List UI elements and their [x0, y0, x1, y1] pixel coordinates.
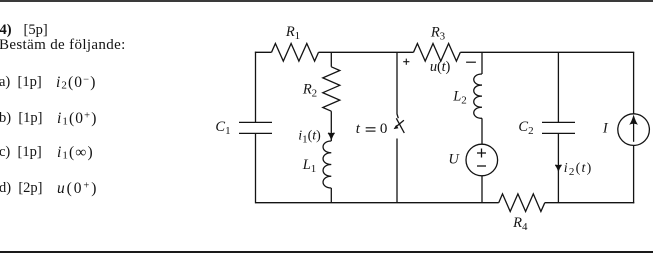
heading: Bestäm de följande:: [0, 38, 126, 53]
wire bottom-right: [545, 202, 634, 204]
wire left rail upper: [255, 52, 257, 123]
capacitor C1: [215, 119, 272, 137]
resistor R2: [302, 67, 340, 111]
wire R1 to R3: [319, 51, 414, 53]
resistor R1: [272, 24, 319, 61]
wire bottom-left: [256, 202, 499, 204]
svg-text:C1: C1: [215, 119, 230, 137]
svg-text:L1: L1: [302, 157, 317, 175]
item b: [0, 111, 43, 126]
inductor L1: [302, 141, 332, 188]
wire left rail lower: [255, 133, 257, 203]
wire R2 to L1: [330, 111, 332, 141]
wire top to L2: [481, 52, 483, 74]
voltage label u(t) with + and -: [403, 59, 476, 75]
svg-text:U: U: [448, 152, 460, 168]
wire U source to bottom: [481, 176, 483, 203]
wire R3 to top-right corner: [460, 51, 634, 53]
svg-text:C2: C2: [518, 119, 533, 137]
current arrow i2(t): [555, 161, 592, 178]
svg-text:u(t): u(t): [430, 59, 451, 75]
svg-text:R3: R3: [430, 24, 446, 42]
inductor L2: [452, 74, 482, 118]
capacitor C2: [518, 119, 575, 137]
current source I: [602, 114, 650, 146]
wire bottom-right rail: [633, 145, 635, 203]
current arrow i1(t): [298, 129, 334, 146]
item c: [0, 145, 42, 160]
heading: 4) [5p]: [0, 23, 12, 38]
wire top-right rail: [633, 52, 635, 114]
item d: [0, 181, 43, 196]
svg-text:R2: R2: [302, 82, 317, 100]
svg-text:i1(t): i1(t): [298, 129, 321, 146]
svg-text:R4: R4: [512, 215, 528, 233]
wire top to C2: [557, 52, 559, 122]
wire C2 to bottom: [557, 133, 559, 202]
item a: [0, 75, 42, 90]
svg-text:I: I: [602, 121, 609, 137]
page top rule: [0, 0, 653, 2]
svg-text:R1: R1: [285, 24, 300, 42]
wire top to R2: [330, 52, 332, 67]
wire top-left (C1 top corner to R1): [255, 51, 272, 53]
svg-text:L2: L2: [452, 89, 467, 107]
svg-text:i2(t): i2(t): [564, 161, 593, 178]
resistor R4: [499, 194, 545, 233]
wire L2 to U source: [481, 118, 483, 144]
wire L1 to bottom: [330, 188, 332, 203]
svg-text:t0: t0: [356, 121, 388, 137]
voltage source U: [448, 144, 497, 176]
wire switch to bottom: [396, 139, 398, 203]
page bottom rule: [0, 251, 653, 253]
resistor R3: [414, 24, 461, 61]
wire top to switch: [397, 52, 398, 118]
switch t=0 (opening): [356, 118, 405, 137]
